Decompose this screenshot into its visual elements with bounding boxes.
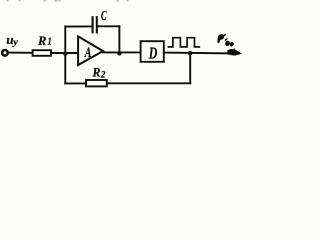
svg-text:D: D [148, 43, 157, 62]
svg-text:R: R [37, 33, 47, 48]
svg-text:у: у [12, 38, 19, 48]
svg-text:1: 1 [47, 35, 51, 47]
svg-text:R: R [92, 64, 101, 79]
svg-text:C: C [101, 8, 107, 23]
svg-text:A: A [84, 45, 92, 61]
svg-text:2: 2 [100, 70, 106, 80]
